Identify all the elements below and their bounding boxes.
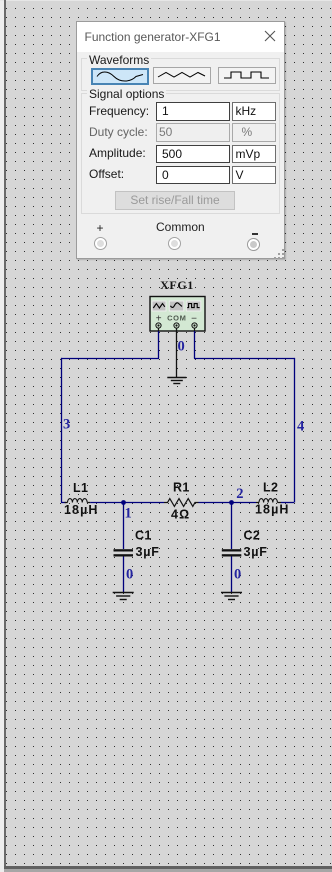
wire C1 to ground [123,557,125,593]
node 3 label [63,417,70,433]
common terminal label [156,220,202,234]
ground under C1 [113,593,134,600]
svg-text:0: 0 [178,339,185,355]
svg-text:4Ω: 4Ω [171,508,190,522]
minus radio button (hot) [247,238,260,251]
svg-text:4: 4 [297,419,304,435]
signal options group box [81,93,280,214]
resize grip [273,248,286,260]
R1 value label 4 ohm [171,508,190,522]
C1 reference label [135,529,152,543]
svg-text:R1: R1 [173,481,190,495]
duty cycle row (disabled) [89,125,148,139]
function generator XFG1 instrument body [150,297,205,332]
wire L1 to node 1 [90,502,123,504]
svg-text:COM: COM [167,314,186,323]
wire from - pin down [194,331,196,359]
svg-text:L1: L1 [73,481,88,495]
net 0 label at C1 [126,567,133,583]
wire node 2 down to C2 [231,503,233,550]
junction node 2 [229,500,234,505]
wire net 4 right vertical [294,358,296,503]
wire COM pin to ground [176,328,178,377]
wire top left horizontal [61,358,159,360]
offset row [89,167,124,181]
C1 value label 3uF [136,545,160,559]
svg-text:C1: C1 [135,529,152,543]
svg-text:1: 1 [125,506,132,522]
wire node 2 to L2 [232,502,257,504]
ground under XFG1 [167,378,186,384]
svg-text:3µF: 3µF [244,545,268,559]
ground under C2 [221,593,242,600]
svg-text:18µH: 18µH [64,503,99,517]
wire node 1 to R1 [123,502,164,504]
wire top right horizontal [194,358,295,360]
svg-text:0: 0 [126,567,133,583]
svg-text:C2: C2 [244,529,261,543]
net 0 label top [178,339,185,355]
net 0 label at C2 [234,567,241,583]
waveforms group box [81,58,280,91]
frequency row [89,104,149,118]
L1 reference label [73,481,88,495]
svg-text:3: 3 [63,417,70,433]
function generator XFG1 label [160,278,194,292]
node 4 label [297,419,304,435]
square wave button [218,67,276,84]
function generator dialog window [76,21,285,259]
R1 reference label [173,481,190,495]
plus terminal label [94,221,106,235]
dialog close button [264,30,276,42]
common radio button [168,237,181,250]
pin COM of XFG1 [174,323,179,328]
capacitor C1 [114,549,134,556]
sine wave button (selected) [91,68,149,85]
L1 value label 18uH [64,503,99,517]
wire left corner to L1 [61,502,66,504]
amplitude row [89,146,146,160]
inductor L1 [65,499,91,503]
plus radio button [94,237,107,250]
resistor R1 [164,499,199,507]
L2 reference label [263,481,278,495]
svg-text:3µF: 3µF [136,545,160,559]
set rise/fall time button (disabled) [115,191,235,210]
L2 value label 18uH [255,503,290,517]
triangle wave button [153,67,211,84]
svg-text:2: 2 [236,486,243,502]
svg-text:0: 0 [234,567,241,583]
wire net 3 left vertical [61,358,63,503]
C2 reference label [244,529,261,543]
wire L2 to right vertical [281,502,294,504]
C2 value label 3uF [244,545,268,559]
inductor L2 [256,499,281,503]
dialog title bar [77,22,284,52]
wire from + pin down [158,331,160,359]
wire R1 to node 2 [199,502,232,504]
node 2 label [236,486,243,502]
minus terminal label [252,233,259,235]
capacitor C2 [222,549,242,556]
svg-text:XFG1: XFG1 [160,278,194,292]
node 1 label [125,506,132,522]
wire C2 to ground [231,557,233,593]
pin - of XFG1 [192,323,197,331]
pin + of XFG1 [156,323,161,331]
svg-text:L2: L2 [263,481,278,495]
svg-text:18µH: 18µH [255,503,290,517]
junction node 1 [121,500,126,505]
wire node 1 down to C1 [123,503,125,550]
